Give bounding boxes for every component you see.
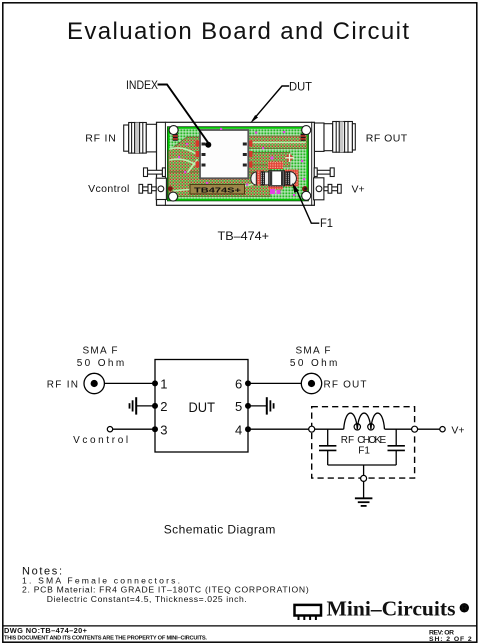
label F1 with leader arrow [292,183,333,230]
svg-text:THIS DOCUMENT AND ITS CONTENTS: THIS DOCUMENT AND ITS CONTENTS ARE THE P… [4,635,207,641]
wire pin 4 to bias network [248,428,309,430]
svg-text:INDEX: INDEX [126,80,158,92]
svg-text:RF IN: RF IN [85,133,116,145]
node in (open circle) [309,426,315,432]
magenta silkscreen dots [178,128,305,196]
TB474S+ silkscreen label [190,184,245,194]
pin 2 [152,403,158,409]
SMA connector RF IN (left, line art) [124,123,157,154]
svg-text:6: 6 [235,377,242,392]
svg-text:Mini–Circuits: Mini–Circuits [327,597,456,621]
node gnd (open circle) [361,475,367,481]
connector J1 RF IN [47,345,125,393]
PCB copper/trace regions (olive checker) [169,136,308,197]
right upper pin [314,168,334,177]
capacitor C1 (left) [319,429,336,465]
pin 1 [152,380,158,386]
PCB green board [168,127,309,201]
V+ terminal [440,427,445,432]
ground at pin 5 [248,397,274,414]
svg-text:50 Ohm: 50 Ohm [77,358,125,369]
pin 3 [152,426,158,432]
left upper pin [144,168,166,177]
svg-text:50 Ohm: 50 Ohm [290,358,338,369]
corner screw holes [169,126,311,202]
green routed traces inside olive [170,143,305,192]
node out (open circle) [412,426,418,432]
DUT box U1 [155,360,248,453]
svg-text:Vcontrol: Vcontrol [88,183,129,195]
svg-text:V+: V+ [451,424,464,436]
svg-text:V+: V+ [352,184,365,196]
svg-text:F1: F1 [320,218,333,230]
SMA connector RF OUT (right, line art) [314,122,355,153]
pin 5 [245,403,251,409]
svg-text:1: 1 [160,377,167,392]
svg-text:CHOKE: CHOKE [357,435,386,446]
ground symbol [355,498,373,506]
svg-text:R: R [461,603,468,613]
svg-text:TB474S+: TB474S+ [194,185,242,194]
wire J1 to pin 1 [104,382,155,384]
left lower pin (Vcontrol) [139,184,156,193]
RF pin solder joints on board edges [173,134,306,141]
dark red vias at board edges [168,186,173,191]
wire pin 6 to J2 [248,382,301,384]
component cluster bottom-right: pads [256,162,299,190]
svg-text:2: 2 [160,399,167,414]
svg-text:RF OUT: RF OUT [324,380,367,391]
pin 6 [245,380,251,386]
DUT pads (red) left/right of white square [196,141,253,168]
svg-text:5: 5 [235,399,242,414]
bottom rail wire [328,465,397,475]
footer separator [3,625,477,627]
wire to choke [315,428,344,430]
ground at pin 2 [130,397,156,414]
carrier plate [157,122,315,205]
svg-text:Schematic Diagram: Schematic Diagram [164,523,276,537]
capacitors / F1 component row [251,171,297,186]
svg-text:SMA F: SMA F [83,345,118,356]
svg-text:SMA F: SMA F [296,345,331,356]
connector J2 RF OUT [290,345,367,393]
svg-text:RF: RF [341,435,354,446]
inductor F1 RF CHOKE [344,413,385,429]
svg-text:Dielectric Constant=4.5, Thick: Dielectric Constant=4.5, Thickness=.025 … [47,594,247,604]
dashed module box F1 [312,407,415,478]
wire choke to out [385,428,412,430]
Mini-Circuits logo [295,597,469,621]
svg-text:Vcontrol: Vcontrol [73,435,128,446]
cross pad [285,153,294,162]
label INDEX with leader [126,80,211,148]
svg-text:DUT: DUT [189,400,216,415]
svg-text:RF OUT: RF OUT [366,132,408,144]
label DUT with leader arrow [250,82,312,124]
svg-text:DUT: DUT [289,82,312,94]
svg-text:TB–474+: TB–474+ [218,229,270,243]
wire node to ground [363,481,365,498]
svg-text:Evaluation Board and Circuit: Evaluation Board and Circuit [67,18,409,45]
svg-text:F1: F1 [358,445,370,456]
DUT white square [200,130,248,178]
svg-text:RF IN: RF IN [47,380,78,391]
pin 4 [245,426,251,432]
wire to V+ [418,428,440,430]
Vcontrol terminal [73,427,155,447]
capacitor C2 (right) [388,429,405,465]
Vcontrol standoff block (left) [156,178,166,199]
svg-text:3: 3 [160,422,167,437]
V+ standoff block (right) [314,178,324,200]
svg-text:4: 4 [235,422,242,437]
svg-text:DWG NO:TB–474–20+: DWG NO:TB–474–20+ [4,626,88,635]
right lower pin (V+) [324,184,341,193]
svg-text:SH: 2 OF 2: SH: 2 OF 2 [429,636,472,643]
